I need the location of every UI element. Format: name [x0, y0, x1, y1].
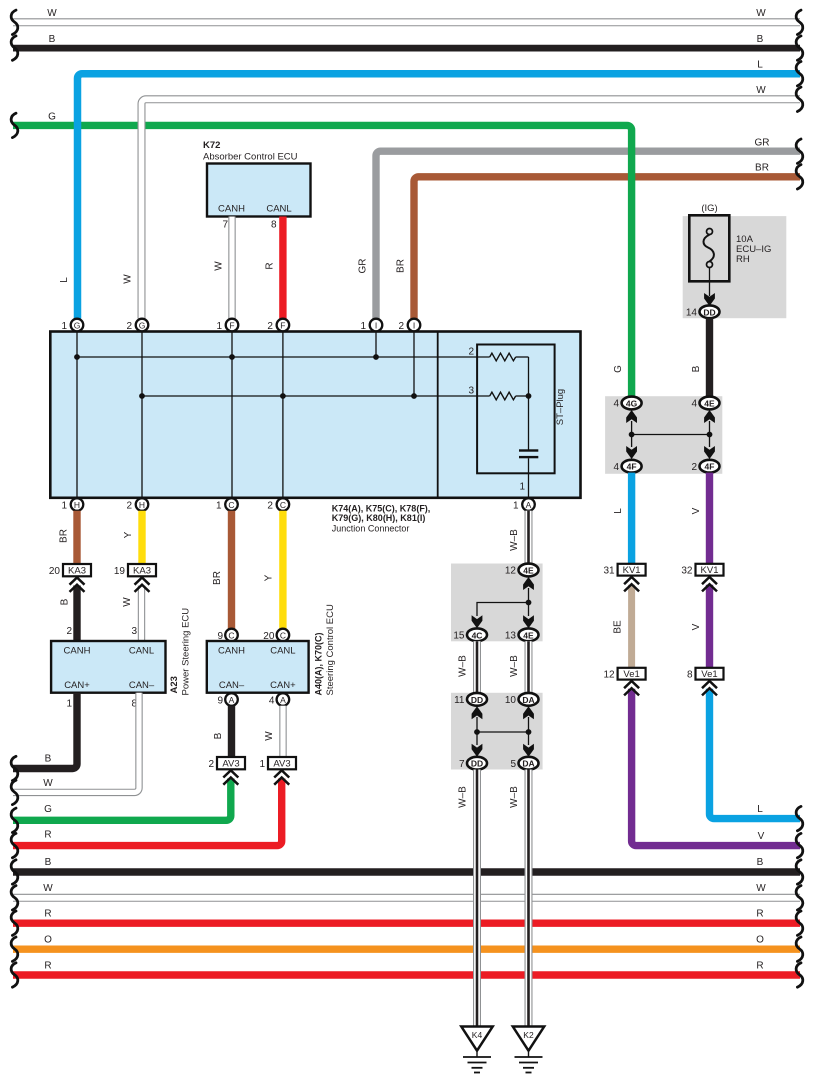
- svg-text:CANL: CANL: [129, 646, 154, 657]
- node dots line 1: [74, 354, 80, 360]
- break W top right: [796, 10, 803, 34]
- svg-text:1: 1: [360, 321, 366, 332]
- svg-text:W: W: [756, 8, 766, 19]
- pin 2I: [398, 319, 420, 332]
- wire G AV3-2 to left edge: [13, 779, 231, 821]
- svg-text:B: B: [45, 857, 52, 868]
- svg-text:BE: BE: [613, 620, 624, 634]
- svg-text:1: 1: [216, 321, 222, 332]
- junction bus line 2: [142, 395, 490, 397]
- svg-text:Ve1: Ve1: [701, 669, 717, 680]
- junction internal vertical 1F-1C: [231, 332, 233, 498]
- arrows up 4G/4E: [626, 410, 637, 423]
- arrow up 12-4E: [523, 577, 534, 590]
- svg-text:I: I: [375, 321, 377, 331]
- svg-text:B: B: [757, 857, 764, 868]
- svg-text:K4: K4: [472, 1030, 483, 1040]
- svg-text:CANH: CANH: [64, 646, 91, 657]
- svg-text:R: R: [44, 961, 51, 972]
- shaded block 4E/4C: [451, 564, 543, 642]
- svg-text:4: 4: [613, 462, 619, 473]
- wire V Ve1-12 to right edge: [632, 689, 800, 846]
- svg-text:C: C: [280, 631, 286, 641]
- pin 9A A40: [217, 693, 237, 706]
- svg-text:4G: 4G: [626, 399, 638, 409]
- ST-plug vertical to capacitor: [528, 357, 530, 450]
- ST-Plug inner box: [477, 345, 554, 474]
- svg-text:Ve1: Ve1: [623, 669, 639, 680]
- wire Y 2C to A40 pin 20C: [264, 511, 283, 629]
- svg-text:W–B: W–B: [509, 655, 520, 677]
- svg-text:W: W: [47, 8, 57, 19]
- svg-text:R: R: [265, 262, 276, 269]
- svg-text:B: B: [49, 34, 56, 45]
- svg-text:A23: A23: [169, 676, 180, 693]
- svg-text:DA: DA: [522, 759, 534, 769]
- shaded block DD/DA: [451, 693, 543, 770]
- wire GR bus to pin 1I: [358, 138, 801, 319]
- connector AV3 pin 2: [208, 757, 245, 770]
- pin 2H: [126, 498, 148, 511]
- wire W-B 7-DD to ground K4: [458, 770, 478, 1027]
- break BR right: [796, 165, 803, 189]
- svg-text:W: W: [43, 883, 53, 894]
- break R lower left: [11, 833, 18, 857]
- svg-text:R: R: [44, 909, 51, 920]
- svg-text:4E: 4E: [704, 399, 715, 409]
- svg-text:10: 10: [505, 695, 517, 706]
- chevron KV1-31: [624, 577, 639, 591]
- svg-text:B: B: [45, 754, 52, 765]
- break W second right: [796, 87, 803, 111]
- svg-text:AV3: AV3: [273, 759, 290, 770]
- svg-text:(IG): (IG): [701, 203, 717, 214]
- svg-text:2: 2: [267, 321, 273, 332]
- chevron KA3-20: [70, 578, 85, 592]
- svg-text:11: 11: [454, 695, 465, 706]
- svg-text:BR: BR: [212, 571, 223, 585]
- svg-text:1: 1: [216, 501, 222, 512]
- svg-text:I: I: [413, 321, 415, 331]
- svg-text:CANH: CANH: [218, 646, 245, 657]
- svg-text:19: 19: [114, 566, 126, 577]
- svg-text:Power Steering ECU: Power Steering ECU: [181, 608, 192, 696]
- break W top left: [11, 10, 18, 34]
- svg-text:9: 9: [217, 696, 223, 707]
- wire W-B 15-4C to 11-DD: [458, 641, 478, 693]
- svg-text:L: L: [59, 277, 70, 283]
- svg-text:CANL: CANL: [270, 646, 295, 657]
- svg-text:8: 8: [271, 220, 277, 231]
- svg-text:13: 13: [505, 631, 517, 642]
- wire L 4F to KV1-31: [613, 473, 632, 564]
- junction internal vertical 1G-1H: [76, 332, 78, 498]
- svg-text:4: 4: [691, 399, 697, 410]
- svg-text:L: L: [613, 508, 624, 514]
- svg-text:CANL: CANL: [266, 204, 291, 215]
- svg-text:KA3: KA3: [68, 566, 86, 577]
- connector AV3 pin 1: [259, 757, 296, 770]
- stems and dots 4G/4E to 4F: [631, 421, 633, 447]
- svg-text:2: 2: [468, 347, 474, 358]
- svg-text:CAN+: CAN+: [270, 680, 296, 691]
- svg-text:5: 5: [510, 759, 516, 770]
- svg-text:K79(G), K80(H), K81(I): K79(G), K80(H), K81(I): [332, 513, 426, 523]
- svg-text:V: V: [691, 507, 702, 514]
- svg-text:C: C: [280, 500, 286, 510]
- svg-text:W: W: [756, 85, 766, 96]
- svg-text:4F: 4F: [627, 462, 637, 472]
- junction internal vertical 2I: [413, 332, 415, 397]
- svg-text:R: R: [44, 830, 51, 841]
- pin 11 DD: [454, 693, 487, 706]
- ground K4: [461, 1027, 492, 1073]
- svg-text:C: C: [228, 631, 234, 641]
- ECU K72 box: [207, 164, 311, 217]
- wire B A23 CAN+ to left edge: [13, 693, 77, 769]
- svg-text:W–B: W–B: [509, 786, 520, 808]
- junction internal divider: [437, 332, 439, 498]
- svg-text:W: W: [214, 261, 225, 271]
- svg-text:H: H: [74, 500, 80, 510]
- pin 12 4E: [505, 564, 539, 577]
- connector KV1 pin 31: [603, 564, 645, 577]
- pin 4 4G: [613, 397, 641, 410]
- svg-text:W: W: [756, 883, 766, 894]
- ECU A23 box: [51, 641, 165, 693]
- break W lower left: [11, 780, 18, 804]
- svg-text:Y: Y: [123, 531, 134, 538]
- break B top left: [11, 36, 18, 60]
- wire W from K72 CANH to pin 1F: [214, 217, 233, 319]
- svg-text:4E: 4E: [523, 630, 534, 640]
- svg-text:DD: DD: [703, 307, 715, 317]
- wire L Ve1-8 to right edge: [710, 689, 801, 819]
- pin 2 4F: [691, 460, 719, 473]
- svg-text:1: 1: [259, 759, 265, 770]
- svg-text:1: 1: [66, 699, 72, 710]
- connector KV1 pin 32: [681, 564, 723, 577]
- wire BR 1H to KA3-20: [59, 511, 78, 564]
- wire W top bus: [13, 8, 800, 22]
- svg-text:12: 12: [505, 566, 517, 577]
- arrows up DD/DA: [472, 706, 483, 719]
- svg-text:1: 1: [61, 501, 67, 512]
- junction internal vertical 2F-2C: [282, 332, 284, 498]
- break B top right: [796, 36, 803, 60]
- svg-text:G: G: [44, 804, 52, 815]
- junction connector box: [50, 332, 580, 498]
- wire B KA3-20 to A23 pin2: [60, 586, 78, 642]
- wire B DD to 4E: [691, 318, 710, 396]
- svg-text:G: G: [139, 321, 146, 331]
- break G lower left: [11, 808, 18, 832]
- junction internal vertical 1I: [375, 332, 377, 358]
- pin 2G: [126, 319, 148, 332]
- chevron AV3-2: [223, 770, 238, 784]
- break G left: [11, 113, 18, 137]
- svg-text:7: 7: [459, 759, 465, 770]
- wire W bottom bus: [13, 883, 800, 898]
- junction internal vertical 2G-2H: [141, 332, 143, 498]
- svg-text:G: G: [48, 112, 56, 123]
- wire R AV3-1 to left edge: [13, 779, 282, 846]
- svg-text:DD: DD: [471, 695, 483, 705]
- svg-text:G: G: [74, 321, 81, 331]
- svg-text:AV3: AV3: [222, 759, 239, 770]
- capacitor C: [519, 449, 538, 451]
- svg-text:KV1: KV1: [623, 565, 641, 576]
- svg-text:CAN–: CAN–: [129, 680, 155, 691]
- wire Y 2H to KA3-19: [123, 511, 142, 564]
- svg-text:V: V: [691, 623, 702, 630]
- connector Ve1 pin 12: [603, 668, 645, 681]
- svg-text:4E: 4E: [523, 566, 534, 576]
- svg-text:L: L: [757, 804, 763, 815]
- wire B top bus: [13, 34, 800, 48]
- svg-text:4C: 4C: [472, 630, 483, 640]
- svg-text:2: 2: [398, 321, 404, 332]
- connector Ve1 pin 8: [687, 668, 724, 681]
- svg-text:B: B: [60, 598, 71, 605]
- svg-text:G: G: [613, 365, 624, 373]
- svg-text:20: 20: [49, 566, 61, 577]
- stems and dot 4E block: [528, 588, 530, 616]
- svg-text:W: W: [43, 778, 53, 789]
- svg-text:CAN+: CAN+: [64, 680, 90, 691]
- wire W-B 5-DA to ground K2: [509, 770, 529, 1027]
- wire W KA3-19 to A23 pin3: [122, 586, 142, 642]
- junction bus line 1: [77, 356, 490, 358]
- svg-text:3: 3: [131, 626, 137, 637]
- svg-text:O: O: [756, 935, 764, 946]
- svg-text:12: 12: [603, 670, 615, 681]
- svg-text:W–B: W–B: [458, 786, 469, 808]
- svg-text:4: 4: [613, 399, 619, 410]
- ground K2: [513, 1027, 544, 1073]
- ECU A40 box: [207, 641, 309, 693]
- chevron Ve1-8: [702, 681, 717, 695]
- svg-text:R: R: [756, 909, 763, 920]
- svg-text:W–B: W–B: [458, 655, 469, 677]
- break GR right: [796, 139, 803, 163]
- svg-text:O: O: [44, 935, 52, 946]
- svg-text:W: W: [123, 274, 134, 284]
- svg-text:V: V: [758, 831, 765, 842]
- pin 1H: [61, 498, 83, 511]
- svg-text:4F: 4F: [705, 462, 715, 472]
- svg-text:W: W: [122, 597, 133, 607]
- chevron KV1-32: [702, 577, 717, 591]
- svg-text:Steering Control ECU: Steering Control ECU: [325, 604, 336, 695]
- pin 13 4E: [505, 628, 539, 641]
- svg-text:DA: DA: [522, 695, 534, 705]
- break B lower left: [11, 756, 18, 780]
- svg-text:A40(A), K70(C): A40(A), K70(C): [314, 632, 324, 695]
- pin 1A: [513, 498, 535, 511]
- svg-text:2: 2: [126, 321, 132, 332]
- svg-text:Junction Connector: Junction Connector: [332, 524, 410, 534]
- svg-text:BR: BR: [59, 529, 70, 543]
- stems and dots DD/DA block: [476, 717, 478, 745]
- wire B bottom bus: [13, 857, 800, 872]
- arrows down to 7-DD/5-DA: [472, 744, 483, 757]
- chevron Ve1-12: [624, 681, 639, 695]
- svg-text:F: F: [229, 321, 234, 331]
- svg-text:15: 15: [453, 631, 465, 642]
- pin 4 4F: [613, 460, 641, 473]
- wire W A23 CAN- to left edge: [13, 693, 139, 793]
- svg-text:7: 7: [222, 220, 228, 231]
- svg-text:DD: DD: [471, 759, 483, 769]
- pin 4A A40: [269, 693, 289, 706]
- node dot resistor join: [526, 393, 532, 399]
- pin 1I: [360, 319, 382, 332]
- wire BR bus to pin 2I: [396, 163, 801, 319]
- svg-text:K72: K72: [203, 140, 220, 151]
- resistor 2: [490, 353, 516, 361]
- wire W 4A to AV3-1: [264, 706, 283, 757]
- wire BE KV1-31 to Ve1-12: [613, 585, 632, 668]
- svg-text:1: 1: [513, 501, 519, 512]
- shaded block 4G/4E/4F: [605, 396, 722, 474]
- svg-text:2: 2: [66, 626, 72, 637]
- svg-text:1: 1: [61, 321, 67, 332]
- pin 2C: [267, 498, 289, 511]
- wire R bottom bus 2: [13, 961, 800, 976]
- pin 1G: [61, 319, 83, 332]
- svg-text:8: 8: [687, 670, 693, 681]
- svg-text:RH: RH: [736, 254, 750, 265]
- fuse box 10A ECU-IG RH: [689, 215, 729, 281]
- pin 15 4C: [453, 628, 487, 641]
- wire fuse to DD: [709, 268, 711, 297]
- svg-text:C: C: [228, 500, 234, 510]
- svg-text:L: L: [757, 60, 763, 71]
- svg-text:Y: Y: [264, 574, 275, 581]
- svg-text:CANH: CANH: [218, 204, 245, 215]
- svg-text:32: 32: [681, 566, 693, 577]
- pin 20C A40: [263, 629, 289, 642]
- svg-text:K74(A), K75(C), K78(F),: K74(A), K75(C), K78(F),: [332, 504, 431, 514]
- wire L bus down to pin 1G: [59, 60, 800, 319]
- svg-text:KV1: KV1: [701, 565, 719, 576]
- svg-text:2: 2: [208, 759, 214, 770]
- svg-text:2: 2: [691, 462, 697, 473]
- wire W-B 1A to 12-4E: [509, 511, 529, 564]
- wire V 4F to KV1-32: [691, 473, 710, 564]
- wire W-B 13-4E to 10-DA: [509, 641, 529, 693]
- svg-text:Absorber Control ECU: Absorber Control ECU: [203, 152, 298, 163]
- svg-text:H: H: [139, 500, 145, 510]
- connector KA3 pin 20: [49, 564, 91, 577]
- svg-text:A: A: [526, 500, 532, 510]
- pin 2F: [267, 319, 289, 332]
- break L right: [796, 61, 803, 85]
- pin 10 DA: [505, 693, 539, 706]
- pin 4 4E: [691, 397, 719, 410]
- svg-text:B: B: [213, 732, 224, 739]
- fuse shaded block background: [683, 216, 787, 318]
- wire O bottom bus: [13, 935, 800, 950]
- svg-text:BR: BR: [755, 163, 769, 174]
- svg-text:3: 3: [468, 386, 474, 397]
- wire B 9A to AV3-2: [213, 706, 232, 757]
- svg-text:A: A: [229, 695, 235, 705]
- wire BR 1C to A40 pin 9C: [212, 511, 232, 629]
- wire V KV1-32 to Ve1-8: [691, 585, 710, 668]
- svg-text:2: 2: [126, 501, 132, 512]
- pin 7 DD: [459, 757, 487, 770]
- svg-text:R: R: [756, 961, 763, 972]
- svg-text:GR: GR: [755, 138, 770, 149]
- pin 1C: [216, 498, 238, 511]
- svg-text:CAN–: CAN–: [219, 680, 245, 691]
- wire G bus down to pin 4G: [13, 112, 632, 397]
- svg-text:1: 1: [519, 482, 525, 493]
- arrows down to 4C/4E: [472, 615, 483, 628]
- pin 9C A40: [217, 629, 237, 642]
- svg-text:B: B: [691, 365, 702, 372]
- svg-text:GR: GR: [358, 259, 369, 274]
- pin 1F: [216, 319, 238, 332]
- svg-text:W: W: [264, 731, 275, 741]
- svg-text:F: F: [280, 321, 285, 331]
- svg-text:B: B: [757, 34, 764, 45]
- svg-text:K2: K2: [523, 1030, 534, 1040]
- svg-text:W–B: W–B: [509, 529, 520, 551]
- fuse element: [704, 235, 714, 262]
- chevron KA3-19: [135, 578, 150, 592]
- arrows down to 4F: [626, 446, 637, 459]
- resistor 3: [490, 392, 516, 400]
- svg-text:ST–Plug: ST–Plug: [555, 389, 566, 425]
- wire W second bus down to pin 2G: [123, 85, 801, 319]
- svg-text:BR: BR: [396, 259, 407, 273]
- svg-text:31: 31: [603, 566, 615, 577]
- node dots line 2: [139, 393, 145, 399]
- connector KA3 pin 19: [114, 564, 156, 577]
- arrow down to DD: [704, 293, 715, 306]
- chevron AV3-1: [274, 770, 289, 784]
- svg-text:4: 4: [269, 696, 275, 707]
- pin 14 DD: [686, 305, 720, 318]
- wire R from K72 CANL to pin 2F: [265, 217, 283, 319]
- svg-text:A: A: [280, 695, 286, 705]
- svg-text:2: 2: [267, 501, 273, 512]
- pin 5 DA: [510, 757, 538, 770]
- wire R bottom bus 1: [13, 909, 800, 924]
- svg-text:14: 14: [686, 308, 698, 319]
- svg-text:KA3: KA3: [133, 566, 151, 577]
